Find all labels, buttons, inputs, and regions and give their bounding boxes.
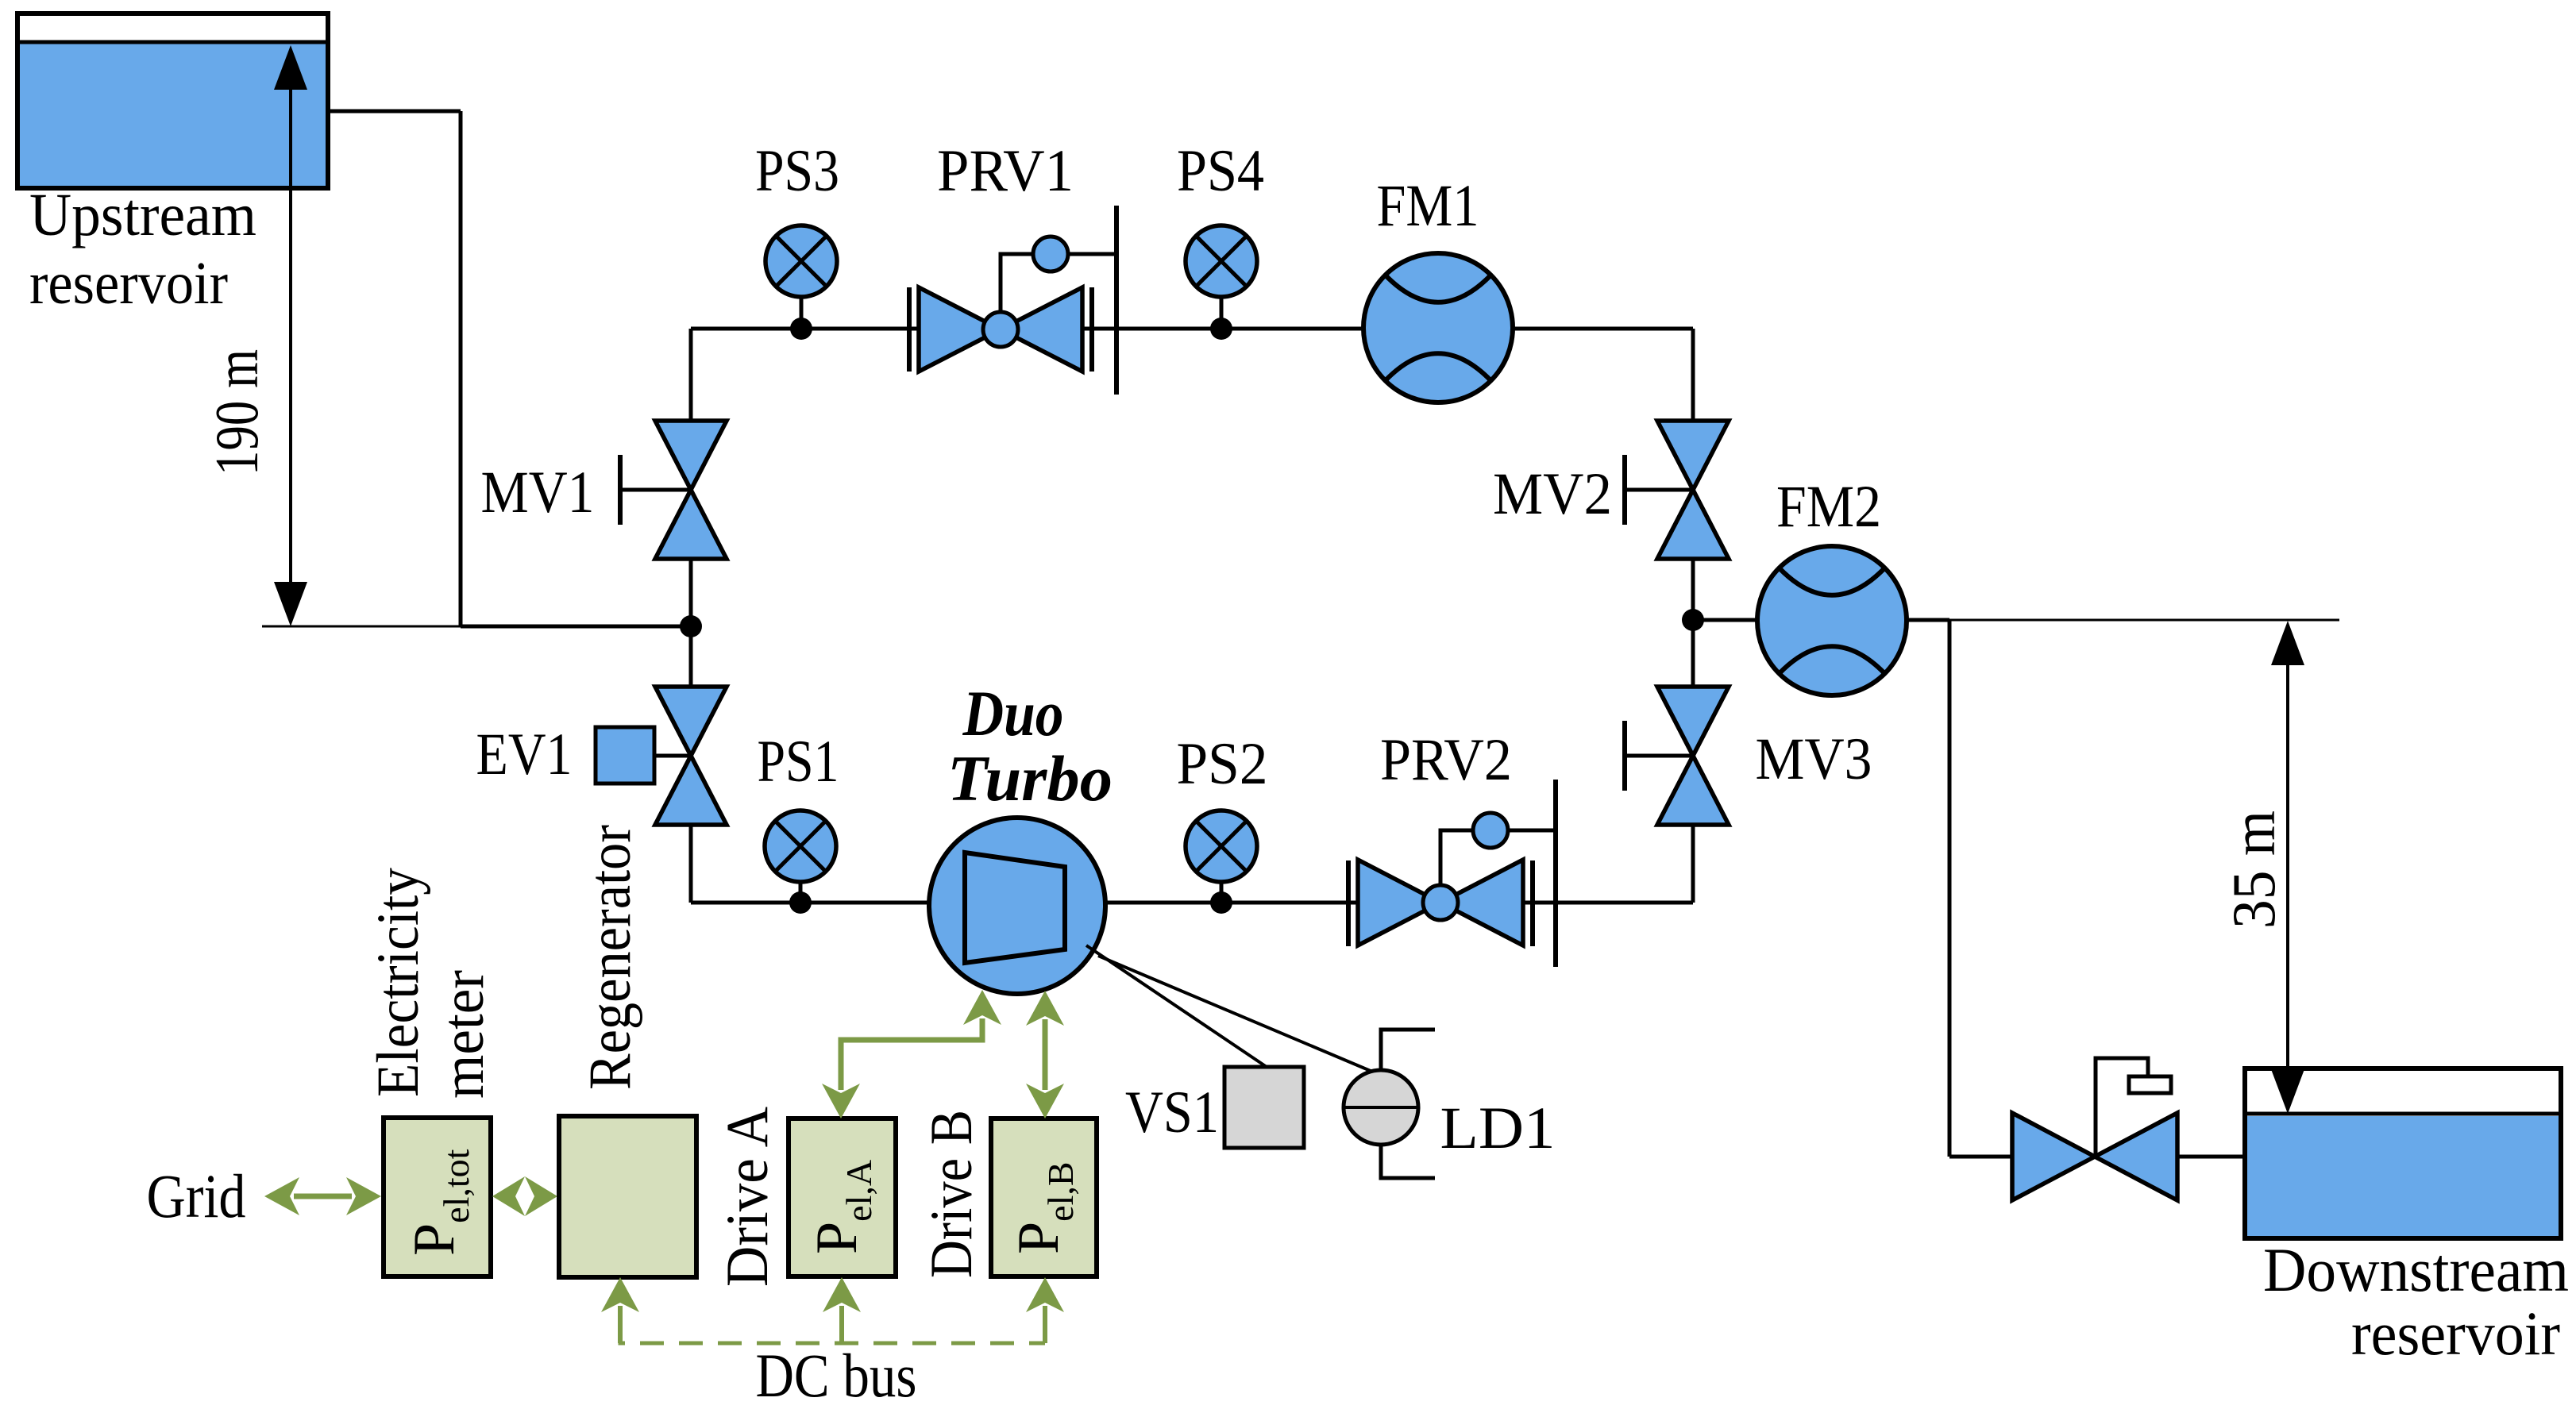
wire: float valve to downstream reservoir xyxy=(2178,1155,2245,1159)
svg-text:EV1: EV1 xyxy=(476,722,573,787)
node: PS4 tap junction xyxy=(1210,318,1232,340)
pressure sensor PS3 (circle with X) xyxy=(800,297,804,329)
drive A box xyxy=(789,1118,896,1276)
upstream reservoir outline xyxy=(17,13,328,188)
wire: junction to FM2 xyxy=(1693,618,1757,622)
svg-text:Regenerator: Regenerator xyxy=(577,825,643,1090)
wire: FM2 outlet xyxy=(1907,618,1949,622)
downstream reservoir tank (blue water) xyxy=(2247,1116,2559,1236)
PRV1 downstream sensing bar xyxy=(1114,206,1119,395)
svg-text:190 m: 190 m xyxy=(202,349,271,475)
drive B to turbine arrow (double headed) xyxy=(1043,1019,1048,1090)
PRV1 pilot line xyxy=(1001,254,1116,313)
flow meter FM1 xyxy=(1363,253,1513,402)
svg-text:PS2: PS2 xyxy=(1177,731,1268,797)
DC bus arrow into drive A xyxy=(839,1306,844,1343)
upstream reservoir water surface line xyxy=(17,40,328,44)
drive A to turbine arrow (elbow, double headed) xyxy=(841,1018,982,1090)
wire: lower pipe horizontal (turbine line) xyxy=(691,901,1693,905)
wire: turbine to VS1 signal line xyxy=(1086,945,1267,1067)
wire: turbine to LD1 signal line xyxy=(1098,956,1376,1073)
node: PS1 tap junction xyxy=(789,891,812,914)
node: PS3 tap junction xyxy=(790,318,812,340)
vibration sensor VS1 (gray box) xyxy=(1224,1067,1304,1148)
valve MV1 (manual valve, vertical bowtie) xyxy=(655,421,727,490)
svg-text:PRV1: PRV1 xyxy=(937,138,1074,204)
grid-meter arrow (double headed) xyxy=(294,1194,352,1199)
flow meter FM2 xyxy=(1757,546,1907,695)
valve PRV1 (pressure reducing valve) end bars xyxy=(907,287,912,372)
wire: ground level line to junction node xyxy=(461,625,693,629)
svg-text:Turbo: Turbo xyxy=(947,742,1113,814)
float valve lever and float xyxy=(2096,1058,2148,1157)
pressure sensor PS1 xyxy=(799,880,803,903)
handle of MV3 xyxy=(1622,721,1627,791)
drive B box xyxy=(991,1118,1097,1276)
valve PRV1 bowtie xyxy=(919,287,1001,372)
LD1 upper bracket xyxy=(1381,1030,1435,1070)
svg-text:DC bus: DC bus xyxy=(756,1341,917,1410)
svg-text:MV2: MV2 xyxy=(1493,461,1612,527)
svg-text:Electricity: Electricity xyxy=(365,868,431,1097)
PRV2 center ball xyxy=(1423,885,1458,920)
svg-text:PS3: PS3 xyxy=(755,138,839,204)
leakage detector LD1 (gray circle) xyxy=(1344,1070,1418,1145)
wire: riser through MV2 xyxy=(1691,329,1695,481)
wire: MV3 riser from junction to lower pipe xyxy=(1691,620,1695,688)
DC bus arrow into regenerator xyxy=(618,1306,623,1343)
svg-text:reservoir: reservoir xyxy=(29,250,228,317)
svg-text:reservoir: reservoir xyxy=(2351,1299,2560,1368)
svg-text:PRV2: PRV2 xyxy=(1380,727,1512,793)
valve PRV2 bowtie xyxy=(1358,860,1440,945)
EV1 actuator box xyxy=(654,754,691,758)
wire: upstream reservoir outlet pipe (horizontal) xyxy=(326,110,461,114)
svg-text:VS1: VS1 xyxy=(1125,1080,1219,1145)
electricity meter box xyxy=(384,1118,491,1276)
regenerator box xyxy=(559,1116,696,1277)
handle of MV1 xyxy=(618,455,623,525)
pressure sensor PS2 xyxy=(1220,880,1224,903)
svg-text:Duo: Duo xyxy=(962,677,1064,749)
svg-text:Upstream: Upstream xyxy=(29,182,256,248)
node: junction at ground level (left riser) xyxy=(680,615,702,637)
dimension arrow 35 m (vertical double arrow) xyxy=(2286,625,2289,1110)
handle of MV2 xyxy=(1622,455,1627,525)
svg-text:PS4: PS4 xyxy=(1177,138,1264,204)
valve MV3 xyxy=(1657,687,1729,756)
PRV1 center ball xyxy=(983,312,1018,347)
PRV1 pilot circle xyxy=(1033,237,1068,271)
DC bus dashed line xyxy=(620,1324,1045,1343)
svg-text:MV1: MV1 xyxy=(481,460,595,526)
solenoid valve EV1 (vertical bowtie) xyxy=(655,687,727,756)
svg-text:PS1: PS1 xyxy=(758,729,839,795)
PRV2 pilot line xyxy=(1440,830,1556,886)
downstream reservoir outline xyxy=(2245,1068,2561,1238)
pressure sensor PS4 xyxy=(1220,297,1224,329)
svg-text:Drive B: Drive B xyxy=(919,1110,985,1278)
wire: lower pipe vertical through EV1 valve xyxy=(689,626,693,747)
svg-text:FM2: FM2 xyxy=(1776,474,1881,540)
svg-text:Drive A: Drive A xyxy=(715,1107,781,1287)
wire: ground reference line at upstream base (thin) xyxy=(262,626,461,628)
svg-text:FM1: FM1 xyxy=(1377,173,1479,239)
svg-text:LD1: LD1 xyxy=(1440,1095,1556,1161)
wire: upper pipe horizontal (to FM1 and MV2) xyxy=(691,327,1693,331)
wire: downpipe to downstream reservoir xyxy=(1948,620,1952,1157)
upstream reservoir tank (blue water) xyxy=(20,44,326,186)
valve MV2 xyxy=(1657,421,1729,490)
dimension arrow 190 m (vertical double arrow) xyxy=(289,49,292,622)
svg-text:meter: meter xyxy=(430,970,496,1099)
node: junction before FM2 xyxy=(1682,609,1704,631)
svg-text:35 m: 35 m xyxy=(2219,810,2288,929)
svg-text:Grid: Grid xyxy=(147,1161,246,1230)
LD1 lower bracket xyxy=(1381,1145,1435,1178)
meter-regenerator arrow (double headed) xyxy=(492,1176,525,1216)
node: PS2 tap junction xyxy=(1210,891,1232,914)
float valve (bowtie) xyxy=(2012,1113,2095,1200)
wire: penstock down from upstream reservoir xyxy=(459,111,463,626)
svg-text:Downstream: Downstream xyxy=(2263,1235,2569,1304)
downstream reservoir water surface line xyxy=(2245,1112,2561,1116)
thin water-level reference line (right) xyxy=(1949,619,2339,622)
Duo Turbo turbine unit (circle) xyxy=(929,818,1105,994)
svg-text:MV3: MV3 xyxy=(1756,726,1872,792)
Duo Turbo runner (trapezoid) xyxy=(965,853,1065,963)
PRV2 pilot circle xyxy=(1473,813,1508,848)
DC bus arrow into drive B xyxy=(1043,1306,1047,1343)
PRV2 downstream sensing bar xyxy=(1553,780,1558,967)
valve PRV2 end bars xyxy=(1346,861,1351,946)
wire: upper pipe vertical through MV1 xyxy=(689,329,693,481)
